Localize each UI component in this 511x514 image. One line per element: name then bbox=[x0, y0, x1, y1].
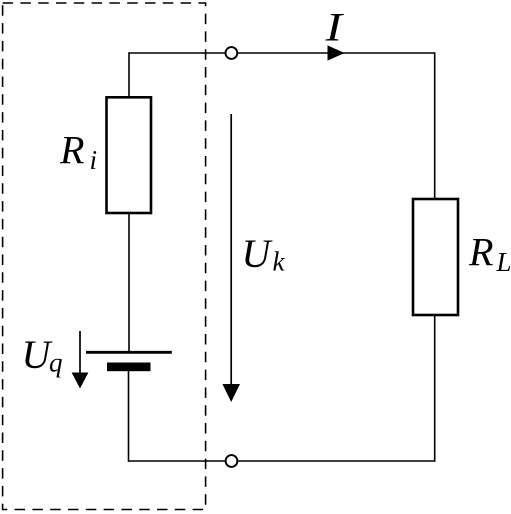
arrow U_q (source voltage direction) bbox=[72, 331, 89, 389]
wire battery bottom to bottom wire bbox=[128, 371, 130, 462]
svg-text:q: q bbox=[49, 348, 63, 378]
svg-text:i: i bbox=[90, 145, 98, 175]
svg-text:R: R bbox=[59, 127, 84, 172]
current arrow I on top wire bbox=[328, 45, 345, 60]
svg-text:L: L bbox=[496, 247, 511, 277]
svg-text:k: k bbox=[273, 247, 286, 277]
terminal node A (top, open circle) bbox=[226, 47, 238, 59]
dashed source box bbox=[3, 3, 206, 510]
label R_L bbox=[468, 230, 511, 278]
label R_i bbox=[59, 127, 97, 175]
battery U_q: short thick plate bbox=[107, 363, 151, 372]
battery U_q (voltage source): long plate bbox=[86, 351, 172, 354]
arrow U_k (terminal voltage) bbox=[222, 114, 240, 402]
wire R_L bottom to bottom-right corner bbox=[434, 315, 436, 462]
resistor R_L bbox=[413, 199, 458, 315]
svg-text:R: R bbox=[468, 230, 493, 275]
svg-text:I: I bbox=[324, 5, 344, 50]
wire bottom (bottom-right corner to node B and into box) bbox=[129, 460, 435, 462]
label U_k bbox=[242, 231, 286, 277]
resistor R_i bbox=[107, 97, 152, 213]
label U_q bbox=[22, 332, 63, 378]
wire top (node A to R_L top corner) bbox=[129, 52, 435, 54]
wire right side down to R_L bbox=[434, 52, 436, 199]
wire R_i bottom to battery plate bbox=[128, 213, 130, 352]
svg-text:U: U bbox=[242, 231, 274, 276]
terminal node B (bottom, open circle) bbox=[226, 455, 238, 467]
wire from top corner down to R_i bbox=[128, 52, 130, 97]
